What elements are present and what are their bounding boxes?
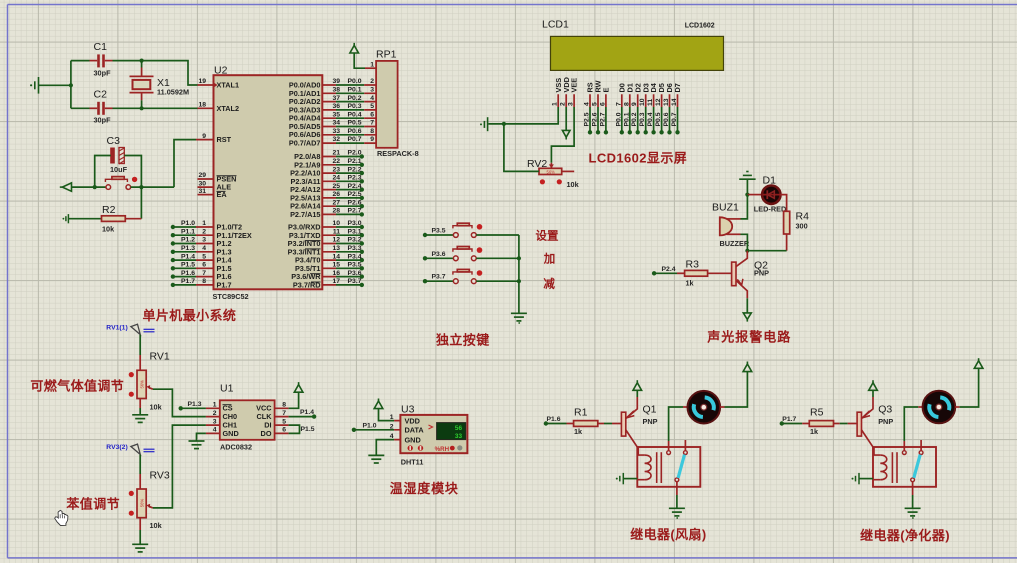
ground keys bbox=[511, 313, 527, 321]
U1 pin numbers left bbox=[213, 402, 217, 434]
junction C3 right node bbox=[139, 185, 143, 189]
wire terminal to coil bbox=[859, 478, 873, 480]
svg-text:10k: 10k bbox=[150, 521, 163, 530]
wire probe to RV3 bbox=[139, 455, 141, 474]
svg-text:5: 5 bbox=[592, 102, 599, 106]
pin names left inside bbox=[217, 81, 252, 290]
svg-text:39: 39 bbox=[332, 78, 340, 85]
relay coil bbox=[873, 447, 880, 480]
resistor R1 1k bbox=[574, 421, 598, 427]
svg-text:RESPACK-8: RESPACK-8 bbox=[377, 149, 419, 158]
svg-text:P1.0: P1.0 bbox=[363, 422, 377, 429]
svg-text:P1.4: P1.4 bbox=[181, 253, 195, 260]
resistor R3 1k bbox=[685, 270, 708, 276]
wire RV3 bottom to ground bbox=[139, 518, 141, 530]
RP1 pin numbers 2-9 bbox=[370, 78, 374, 143]
wire Q3 emitter to power bbox=[872, 390, 874, 397]
wire C1 left bbox=[71, 60, 90, 62]
svg-text:56: 56 bbox=[455, 425, 463, 432]
svg-text:P0.7/AD7: P0.7/AD7 bbox=[289, 139, 321, 148]
wire C2 left bbox=[71, 107, 90, 109]
wire VCC to power bbox=[289, 392, 299, 408]
svg-text:P0.6: P0.6 bbox=[348, 128, 362, 135]
wire GND to ground bbox=[376, 440, 394, 456]
power arrow U1 bbox=[294, 382, 303, 392]
wire ground to R2 bbox=[68, 218, 101, 220]
wire C3 right down bbox=[124, 156, 141, 188]
svg-text:7: 7 bbox=[282, 410, 286, 417]
relay RL1 box bbox=[637, 447, 700, 487]
wire terminal to button bbox=[72, 186, 107, 188]
wire buzzer top pin bbox=[727, 218, 741, 220]
power arrow motor2 bbox=[974, 358, 983, 368]
junction D1 anode node bbox=[745, 193, 749, 197]
svg-text:RV1(1): RV1(1) bbox=[106, 324, 127, 331]
svg-text:P1.6: P1.6 bbox=[181, 270, 195, 277]
svg-text:P0.5: P0.5 bbox=[348, 120, 362, 127]
svg-text:RV3(2): RV3(2) bbox=[106, 444, 127, 451]
svg-text:E: E bbox=[602, 88, 611, 93]
svg-text:56%: 56% bbox=[139, 499, 144, 508]
wire R1 to Q1 base bbox=[598, 423, 604, 425]
svg-text:4: 4 bbox=[584, 102, 591, 106]
wire P1.0 to DATA bbox=[354, 429, 394, 431]
svg-text:10uF: 10uF bbox=[110, 165, 128, 174]
wire ground to C1/C2 node bbox=[39, 84, 71, 86]
terminal arrow down (alarm out) bbox=[743, 313, 751, 322]
svg-text:3: 3 bbox=[568, 102, 575, 106]
wire NC contact up to motor bbox=[668, 441, 670, 451]
svg-text:P2.3: P2.3 bbox=[348, 175, 362, 182]
wire R4 bottom to emitter node bbox=[786, 234, 788, 251]
U1 pin names bbox=[223, 404, 239, 438]
svg-text:4: 4 bbox=[213, 427, 217, 434]
relay switch blade (cyan) bbox=[678, 455, 684, 478]
pin stubs left (XTAL1,XTAL2,RST,PSEN,ALE,EA,P1.0-P1.7) bbox=[196, 85, 214, 285]
terminal arrow down VDD bbox=[562, 130, 570, 139]
svg-text:38: 38 bbox=[332, 87, 340, 94]
svg-text:P2.7: P2.7 bbox=[348, 208, 362, 215]
sensor U3 DHT11 bbox=[400, 415, 467, 453]
svg-text:继电器(净化器): 继电器(净化器) bbox=[860, 528, 950, 543]
pin numbers left bbox=[198, 78, 206, 285]
net labels P2.0-P2.7 bbox=[348, 150, 362, 215]
svg-text:19: 19 bbox=[198, 78, 206, 85]
wire node to D1 bbox=[747, 194, 763, 196]
svg-text:STC89C52: STC89C52 bbox=[213, 292, 249, 301]
wire DI-DO bridge P1.5 bbox=[289, 425, 300, 433]
lcd pin numbers rotated bbox=[552, 98, 678, 106]
wire RV2 right stub bbox=[562, 170, 575, 172]
wire Q1 emitter to power bbox=[636, 390, 638, 397]
node P1.6 bbox=[544, 421, 548, 425]
svg-text:温湿度模块: 温湿度模块 bbox=[390, 481, 459, 496]
svg-text:30pF: 30pF bbox=[94, 116, 112, 125]
svg-text:VEE: VEE bbox=[570, 78, 579, 93]
svg-text:GND: GND bbox=[405, 435, 421, 444]
svg-text:P1.5: P1.5 bbox=[181, 262, 195, 269]
resistor pack RP1 RESPACK-8 bbox=[376, 61, 398, 148]
svg-text:30pF: 30pF bbox=[94, 68, 112, 77]
svg-text:6: 6 bbox=[370, 111, 374, 118]
svg-text:U2: U2 bbox=[214, 65, 228, 77]
wire R5 to Q3 base bbox=[834, 423, 840, 425]
svg-text:Q1: Q1 bbox=[643, 404, 657, 416]
power arrow U3 bbox=[374, 399, 383, 409]
svg-text:PNP: PNP bbox=[754, 269, 769, 278]
wire R3 to Q2 base bbox=[708, 272, 732, 274]
svg-text:30: 30 bbox=[198, 180, 206, 187]
power arrow motor1 bbox=[743, 362, 752, 372]
U3 pin numbers bbox=[390, 414, 394, 440]
svg-text:9: 9 bbox=[631, 102, 638, 106]
wire motor to power bbox=[720, 406, 724, 408]
pin1 stub bbox=[365, 67, 376, 69]
ground terminal left of R2 bbox=[66, 214, 69, 223]
svg-text:P2.2: P2.2 bbox=[348, 166, 362, 173]
wire R2 right bbox=[125, 218, 141, 220]
svg-text:10: 10 bbox=[639, 98, 646, 106]
svg-text:P3.6: P3.6 bbox=[348, 270, 362, 277]
node P1.3 bbox=[179, 406, 183, 410]
node P1.7 bbox=[780, 421, 784, 425]
wire keys common vertical bbox=[518, 235, 520, 313]
buzzer BUZ1 bbox=[712, 202, 750, 249]
svg-text:5: 5 bbox=[370, 103, 374, 110]
svg-text:P1.7: P1.7 bbox=[217, 281, 232, 290]
wire X1 bottom bbox=[141, 93, 143, 101]
svg-text:P3.0: P3.0 bbox=[348, 220, 362, 227]
junction X1 bottom bbox=[140, 106, 144, 110]
wire motor to power bbox=[955, 406, 959, 408]
svg-text:P2.1: P2.1 bbox=[348, 158, 362, 165]
svg-text:可燃气体值调节: 可燃气体值调节 bbox=[30, 379, 124, 394]
svg-text:P2.6: P2.6 bbox=[348, 199, 362, 206]
svg-text:设置: 设置 bbox=[536, 229, 559, 243]
svg-text:6: 6 bbox=[202, 262, 206, 269]
svg-text:P2.4: P2.4 bbox=[348, 183, 362, 190]
svg-text:P1.1: P1.1 bbox=[181, 228, 195, 235]
wire C1 right to corner then XTAL1 bbox=[105, 60, 113, 62]
RV2 pin marker dots bbox=[540, 179, 545, 184]
svg-text:8: 8 bbox=[623, 102, 630, 106]
svg-text:GND: GND bbox=[223, 429, 239, 438]
svg-text:P3.1: P3.1 bbox=[348, 228, 362, 235]
svg-text:2: 2 bbox=[370, 78, 374, 85]
ground relay1 bbox=[669, 508, 685, 516]
wire P1.7 to R5 bbox=[782, 423, 802, 425]
svg-text:R3: R3 bbox=[686, 259, 700, 271]
svg-text:10k: 10k bbox=[150, 403, 163, 412]
net labels P0.0-P0.7 bbox=[348, 78, 362, 143]
svg-text:D1: D1 bbox=[763, 175, 777, 187]
svg-text:RP1: RP1 bbox=[376, 49, 397, 61]
svg-text:P1.7: P1.7 bbox=[782, 416, 796, 423]
svg-text:PNP: PNP bbox=[878, 417, 893, 426]
relay switch blade (cyan) bbox=[914, 455, 920, 478]
wires P2 rows with terminal dots bbox=[336, 157, 362, 215]
svg-text:4: 4 bbox=[370, 95, 374, 102]
power arrow for RP1 pin1 bbox=[350, 43, 359, 53]
svg-text:P0.3: P0.3 bbox=[348, 103, 362, 110]
svg-text:P0.4: P0.4 bbox=[348, 111, 362, 118]
svg-text:33: 33 bbox=[332, 128, 340, 135]
svg-text:C3: C3 bbox=[107, 135, 121, 147]
svg-text:BUZ1: BUZ1 bbox=[712, 202, 739, 214]
svg-text:3: 3 bbox=[213, 418, 217, 425]
svg-text:单片机最小系统: 单片机最小系统 bbox=[143, 308, 237, 323]
svg-text:P1.7: P1.7 bbox=[181, 278, 195, 285]
ground terminal relay1 coil bbox=[620, 473, 624, 484]
junction key common P3.7 bbox=[517, 279, 521, 283]
capacitor C2 bbox=[97, 102, 100, 115]
key button P3.5 bbox=[423, 223, 519, 237]
relay contacts bbox=[902, 451, 906, 455]
svg-text:P0.7: P0.7 bbox=[348, 136, 362, 143]
svg-text:9: 9 bbox=[202, 133, 206, 140]
wire C1-C2 left vertical bbox=[70, 61, 72, 109]
wire RV1 wiper to U1 CH0 bbox=[153, 389, 206, 416]
junction key common P3.6 bbox=[517, 256, 521, 260]
probe symbol RV1 bbox=[131, 324, 140, 334]
ic U1 ADC0832 bbox=[220, 400, 275, 440]
lcd pin stubs bbox=[558, 94, 677, 107]
overline EA bbox=[217, 190, 226, 192]
svg-text:7: 7 bbox=[615, 102, 622, 106]
svg-text:18: 18 bbox=[198, 102, 206, 109]
relay contacts bbox=[667, 451, 671, 455]
wire Q2 collector down bbox=[746, 298, 748, 313]
U3 pin names bbox=[405, 416, 425, 444]
wire power to VDD bbox=[379, 409, 395, 421]
svg-text:33: 33 bbox=[455, 433, 463, 440]
overline PSEN bbox=[217, 175, 237, 177]
svg-text:XTAL1: XTAL1 bbox=[217, 81, 240, 90]
U1 pin stubs left bbox=[206, 408, 220, 433]
wire probe to RV1 bbox=[139, 335, 141, 355]
transistor Q2 PNP bbox=[732, 251, 770, 299]
wire ground down to node bbox=[746, 179, 748, 194]
svg-text:P3.7: P3.7 bbox=[432, 274, 446, 281]
svg-text:13: 13 bbox=[663, 98, 670, 106]
lcd LCD1602 screen bbox=[551, 36, 724, 70]
svg-text:P1.3: P1.3 bbox=[181, 245, 195, 252]
svg-text:11: 11 bbox=[647, 99, 654, 106]
ground U1 bbox=[189, 441, 205, 449]
svg-text:P1.5: P1.5 bbox=[301, 426, 315, 433]
power arrow Q3 bbox=[869, 380, 878, 390]
relay core bars bbox=[891, 452, 893, 483]
U3 pin stubs bbox=[394, 421, 400, 440]
lcd net labels rotated bbox=[584, 112, 679, 126]
motor/fan M1 bbox=[688, 391, 721, 424]
key button P3.6 bbox=[423, 247, 519, 261]
svg-text:LCD1602: LCD1602 bbox=[685, 23, 715, 30]
svg-text:3: 3 bbox=[202, 237, 206, 244]
svg-text:P3.3: P3.3 bbox=[348, 245, 362, 252]
svg-text:8: 8 bbox=[202, 278, 206, 285]
svg-text:12: 12 bbox=[655, 98, 662, 106]
svg-text:P2.0: P2.0 bbox=[348, 150, 362, 157]
probe symbol RV3 bbox=[131, 444, 140, 454]
svg-text:RV3: RV3 bbox=[150, 470, 170, 482]
svg-text:LCD1: LCD1 bbox=[542, 19, 569, 31]
svg-text:DHT11: DHT11 bbox=[401, 458, 424, 467]
svg-text:4: 4 bbox=[202, 245, 206, 252]
wires P1 rows with terminal dots bbox=[173, 227, 196, 285]
svg-text:ADC0832: ADC0832 bbox=[220, 443, 252, 452]
wire GND pin to ground bbox=[197, 433, 206, 441]
U3 icon row bbox=[408, 445, 413, 450]
wire X1 top bbox=[141, 61, 143, 68]
svg-text:7: 7 bbox=[370, 120, 374, 127]
lcd wires down with terminal dots bbox=[590, 107, 678, 132]
svg-text:P2.5: P2.5 bbox=[348, 191, 362, 198]
svg-text:1: 1 bbox=[370, 61, 374, 68]
ground terminal LCD bbox=[484, 117, 487, 131]
svg-text:独立按键: 独立按键 bbox=[436, 332, 490, 347]
svg-text:2: 2 bbox=[560, 102, 567, 106]
svg-text:5: 5 bbox=[202, 253, 206, 260]
svg-text:Q3: Q3 bbox=[878, 404, 892, 416]
XTAL1 input arrow bbox=[214, 83, 218, 88]
pin names right inside bbox=[288, 81, 322, 290]
svg-text:DO: DO bbox=[261, 429, 272, 438]
svg-text:1: 1 bbox=[213, 402, 217, 409]
svg-text:1: 1 bbox=[202, 220, 206, 227]
wire terminal to coil bbox=[623, 478, 637, 480]
svg-text:R5: R5 bbox=[810, 407, 824, 419]
svg-text:P2.4: P2.4 bbox=[662, 266, 676, 273]
svg-text:P3.5: P3.5 bbox=[348, 262, 362, 269]
svg-text:D7: D7 bbox=[673, 83, 682, 92]
lcd pin names rotated bbox=[554, 77, 682, 92]
svg-text:1k: 1k bbox=[810, 427, 819, 436]
svg-text:U1: U1 bbox=[220, 383, 234, 395]
svg-text:苯值调节: 苯值调节 bbox=[65, 497, 120, 512]
resistor R2 10k bbox=[102, 216, 126, 222]
svg-text:P3.6: P3.6 bbox=[432, 251, 446, 258]
svg-text:6: 6 bbox=[282, 427, 286, 434]
svg-text:8: 8 bbox=[370, 128, 374, 135]
svg-text:1k: 1k bbox=[574, 427, 583, 436]
wire node down to R2 bbox=[140, 187, 142, 219]
svg-text:P2.7/A15: P2.7/A15 bbox=[290, 210, 320, 219]
ground (inverted) top of alarm bbox=[739, 172, 755, 180]
wire common contact to ground bbox=[912, 482, 914, 495]
wire CLK to P1.4 bbox=[289, 416, 312, 418]
svg-text:9: 9 bbox=[370, 136, 374, 143]
node P1.0 bbox=[352, 428, 356, 432]
junction VSS/RV2 node bbox=[502, 122, 506, 126]
wire RST riser bbox=[174, 140, 196, 188]
wire button right to RST riser bbox=[131, 186, 174, 188]
relay NO stub bbox=[684, 440, 686, 451]
wire P1.3 to CS bbox=[181, 407, 206, 409]
relay core bars bbox=[656, 452, 658, 483]
svg-text:DATA: DATA bbox=[405, 426, 425, 435]
junction C3 left node bbox=[93, 185, 97, 189]
svg-text:BUZZER: BUZZER bbox=[720, 239, 750, 248]
svg-text:C2: C2 bbox=[94, 89, 108, 101]
wire RV2 left to ground node bbox=[504, 124, 539, 171]
svg-text:56%: 56% bbox=[139, 380, 144, 389]
overlines INT0 INT1 WR RD bbox=[305, 241, 321, 282]
svg-text:1: 1 bbox=[552, 102, 559, 106]
ic U2 STC89C52 body bbox=[214, 75, 323, 289]
svg-text:P1.6: P1.6 bbox=[547, 416, 561, 423]
U3 display bbox=[437, 423, 466, 440]
svg-text:36: 36 bbox=[332, 103, 340, 110]
svg-text:11.0592M: 11.0592M bbox=[157, 87, 189, 96]
U1 pin stubs right bbox=[275, 408, 289, 433]
wire RV3 wiper to U1 CH1 bbox=[153, 425, 206, 508]
svg-text:XTAL2: XTAL2 bbox=[217, 104, 240, 113]
svg-text:P0.0: P0.0 bbox=[348, 78, 362, 85]
svg-text:LED-RED: LED-RED bbox=[754, 205, 786, 214]
svg-text:P3.2: P3.2 bbox=[348, 237, 362, 244]
svg-text:PNP: PNP bbox=[643, 417, 658, 426]
svg-text:P1.3: P1.3 bbox=[188, 401, 202, 408]
svg-text:加: 加 bbox=[543, 252, 556, 266]
svg-text:P0.2: P0.2 bbox=[348, 95, 362, 102]
svg-text:LCD1602显示屏: LCD1602显示屏 bbox=[589, 150, 688, 165]
svg-text:8: 8 bbox=[282, 402, 286, 409]
wire common contact to ground bbox=[676, 482, 678, 495]
svg-text:R2: R2 bbox=[102, 204, 116, 216]
svg-text:P0.1: P0.1 bbox=[348, 87, 362, 94]
node P2.4 bbox=[652, 271, 656, 275]
svg-text:P3.7: P3.7 bbox=[348, 278, 362, 285]
svg-text:10k: 10k bbox=[102, 225, 115, 234]
RP1 pin stubs 2-9 bbox=[364, 85, 376, 143]
wire RV1 bottom to ground bbox=[139, 399, 141, 409]
net labels P3.0-P3.7 bbox=[348, 220, 362, 285]
svg-text:7: 7 bbox=[202, 270, 206, 277]
pin numbers right bbox=[332, 78, 340, 285]
key button P3.7 bbox=[423, 269, 519, 283]
power arrow Q1 bbox=[633, 380, 642, 390]
node P1.4 bbox=[312, 414, 316, 418]
transistor Q3 PNP bbox=[857, 397, 893, 447]
led D1 LED-RED bbox=[754, 175, 786, 214]
ground RV3 bbox=[132, 544, 148, 552]
ground relay2 bbox=[905, 508, 921, 516]
junction X1 top bbox=[140, 59, 144, 63]
junction emitter node bbox=[745, 249, 749, 253]
svg-text:C1: C1 bbox=[94, 41, 108, 53]
svg-text:VDD: VDD bbox=[405, 416, 420, 425]
capacitor C1 bbox=[97, 54, 100, 67]
svg-text:56%: 56% bbox=[547, 170, 556, 175]
svg-text:31: 31 bbox=[198, 188, 206, 195]
wire buzzer bottom pin bbox=[727, 233, 741, 235]
resistor R5 1k bbox=[809, 421, 833, 427]
svg-text:1k: 1k bbox=[686, 279, 695, 288]
svg-text:U3: U3 bbox=[401, 404, 415, 416]
wire P2.4 to R3 bbox=[654, 272, 677, 274]
svg-text:29: 29 bbox=[198, 172, 206, 179]
transistor Q1 PNP bbox=[621, 397, 657, 447]
junction ground node bbox=[69, 83, 73, 87]
wire P1.6 to R1 bbox=[546, 423, 567, 425]
relay NO stub bbox=[920, 440, 922, 451]
svg-text:RV1: RV1 bbox=[150, 351, 170, 363]
ground terminal left of C1/C2 bbox=[35, 77, 39, 94]
relay RL2 box bbox=[873, 447, 936, 487]
wire VEE to RV2 wiper bbox=[551, 107, 574, 163]
wire NC contact up to motor bbox=[903, 441, 905, 451]
